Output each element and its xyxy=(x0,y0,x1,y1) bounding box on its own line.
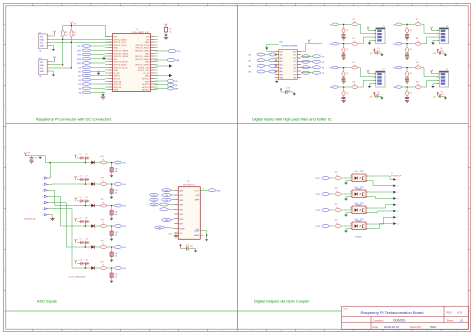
svg-text:ID_SC: ID_SC xyxy=(143,73,150,75)
svg-text:GPIO16: GPIO16 xyxy=(142,84,150,86)
svg-text:CH6: CH6 xyxy=(179,219,183,221)
svg-text:GPIO8_CE0: GPIO8_CE0 xyxy=(138,67,151,69)
svg-text:GPIO25_GEN6: GPIO25_GEN6 xyxy=(135,65,150,67)
svg-text:CH0: CH0 xyxy=(179,190,183,192)
svg-text:GPIO20: GPIO20 xyxy=(142,87,150,89)
svg-text:GPIO10_MOSI: GPIO10_MOSI xyxy=(114,62,129,64)
svg-text:GND: GND xyxy=(145,53,150,55)
svg-text:CH1: CH1 xyxy=(179,195,183,197)
svg-text:Sheet:: Sheet: xyxy=(447,320,455,323)
svg-text:ADC Inputs: ADC Inputs xyxy=(37,299,57,304)
svg-text:GND: GND xyxy=(114,70,119,72)
svg-text:GND: GND xyxy=(145,76,150,78)
svg-text:GND: GND xyxy=(40,46,45,48)
svg-text:GPIO4_GCLK: GPIO4_GCLK xyxy=(114,45,128,47)
svg-text:+3V3: +3V3 xyxy=(168,234,172,236)
svg-text:CH7: CH7 xyxy=(179,224,183,226)
svg-text:CH4: CH4 xyxy=(179,209,183,211)
svg-text:GPIO6: GPIO6 xyxy=(114,79,121,81)
svg-text:GPIO22_GEN3: GPIO22_GEN3 xyxy=(114,56,129,58)
svg-text:GPIO19: GPIO19 xyxy=(114,84,122,86)
svg-text:U6: U6 xyxy=(39,76,41,78)
svg-text:C17: C17 xyxy=(287,87,290,89)
svg-text:MCP3008-SL: MCP3008-SL xyxy=(183,185,196,187)
svg-text:GND: GND xyxy=(40,71,45,73)
svg-text:GPIO11_SCLK: GPIO11_SCLK xyxy=(114,67,129,69)
svg-text:GPIO5: GPIO5 xyxy=(114,76,121,78)
svg-text:P3: P3 xyxy=(383,69,385,71)
svg-text:CH3: CH3 xyxy=(179,205,183,207)
svg-text:SN74HC244PWR: SN74HC244PWR xyxy=(282,46,298,48)
svg-text:GND: GND xyxy=(145,62,150,64)
svg-text:CH2: CH2 xyxy=(179,200,183,202)
svg-text:Raspberry Pi Testautomation Bo: Raspberry Pi Testautomation Board xyxy=(360,310,423,315)
svg-text:Digital Inputs with high pass: Digital Inputs with high pass filter and… xyxy=(252,116,332,121)
svg-text:GND: GND xyxy=(114,48,119,50)
svg-text:BIM: BIM xyxy=(431,325,437,329)
svg-text:GPIO7_CE1: GPIO7_CE1 xyxy=(138,70,151,72)
svg-text:Drawn By:: Drawn By: xyxy=(410,326,422,329)
svg-text:Raspberry Pi connector with I2: Raspberry Pi connector with I2C connecto… xyxy=(36,116,111,121)
svg-text:GPIO14_TXD0: GPIO14_TXD0 xyxy=(135,45,150,47)
svg-text:GPIO23_GEN4: GPIO23_GEN4 xyxy=(135,56,150,58)
svg-text:P4: P4 xyxy=(446,69,448,71)
svg-text:GPIO24_GEN5: GPIO24_GEN5 xyxy=(135,59,150,61)
svg-text:GND: GND xyxy=(145,42,150,44)
svg-text:2018-10-07: 2018-10-07 xyxy=(384,325,400,329)
svg-text:GPIO9_MISO: GPIO9_MISO xyxy=(114,65,127,67)
svg-text:GPIO18_GEN1: GPIO18_GEN1 xyxy=(135,51,150,53)
svg-text:Company:: Company: xyxy=(373,320,385,323)
svg-text:TITLE:: TITLE: xyxy=(343,309,349,311)
svg-text:GPIO3_SCL1: GPIO3_SCL1 xyxy=(114,42,128,44)
svg-text:GPIO26: GPIO26 xyxy=(114,87,122,89)
svg-text:DGND: DGND xyxy=(179,228,185,230)
svg-text:P2: P2 xyxy=(446,26,448,28)
svg-text:Date:: Date: xyxy=(373,326,379,329)
svg-text:REV:: REV: xyxy=(447,312,453,315)
svg-text:GPIO27_GEN2: GPIO27_GEN2 xyxy=(114,53,129,55)
svg-text:GPIO15_RXD0: GPIO15_RXD0 xyxy=(135,48,150,50)
svg-text:GND: GND xyxy=(114,90,119,92)
svg-text:GPIO13: GPIO13 xyxy=(114,81,122,83)
svg-text:0.X: 0.X xyxy=(458,311,463,315)
svg-text:ID_SD: ID_SD xyxy=(114,73,121,75)
svg-text:GND: GND xyxy=(145,81,150,83)
svg-text:OGMOS: OGMOS xyxy=(393,319,406,323)
svg-text:1/1: 1/1 xyxy=(460,319,465,323)
svg-text:GPIO21: GPIO21 xyxy=(142,90,150,92)
svg-text:GPIO12: GPIO12 xyxy=(142,79,150,81)
svg-text:P1: P1 xyxy=(383,26,385,28)
svg-text:U5: U5 xyxy=(39,51,41,53)
svg-text:GPIO17_GEN0: GPIO17_GEN0 xyxy=(114,51,129,53)
svg-text:CH5: CH5 xyxy=(179,214,183,216)
svg-text:Digital Outputs via Opto Coupl: Digital Outputs via Opto Coupler xyxy=(254,299,310,304)
